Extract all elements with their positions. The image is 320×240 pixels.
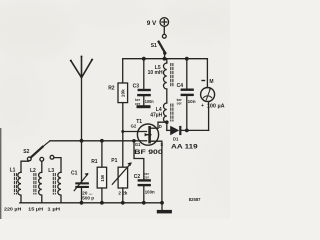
svg-text:S2: S2 (23, 149, 29, 155)
svg-text:C1: C1 (71, 170, 78, 176)
svg-text:100n: 100n (145, 99, 154, 104)
svg-text:AA 119: AA 119 (171, 144, 198, 151)
svg-text:2 2k: 2 2k (118, 190, 127, 195)
svg-text:D1: D1 (173, 137, 179, 142)
svg-text:82587: 82587 (189, 197, 201, 202)
svg-text:S1: S1 (151, 43, 157, 49)
svg-text:D: D (159, 124, 162, 129)
svg-text:BF 900: BF 900 (134, 149, 163, 156)
svg-text:L1: L1 (10, 167, 16, 173)
svg-text:10 mH: 10 mH (148, 70, 163, 76)
svg-text:L3: L3 (48, 168, 54, 174)
svg-text:R1: R1 (91, 159, 98, 165)
svg-text:100 µA: 100 µA (207, 103, 225, 109)
svg-text:220 µH: 220 µH (4, 206, 22, 211)
svg-text:G2: G2 (131, 124, 137, 129)
svg-text:cer: cer (135, 102, 141, 106)
svg-text:9 V: 9 V (147, 20, 157, 27)
svg-text:R2: R2 (108, 85, 115, 91)
svg-text:C3: C3 (133, 83, 140, 89)
svg-text:1M: 1M (100, 175, 106, 182)
svg-text:100n: 100n (145, 189, 155, 194)
svg-text:C2: C2 (134, 174, 141, 180)
svg-text:1 µH: 1 µH (47, 206, 60, 211)
svg-text:cer: cer (177, 101, 183, 105)
svg-text:M: M (209, 79, 213, 85)
svg-text:500 p: 500 p (82, 195, 94, 200)
svg-text:L2: L2 (30, 168, 36, 174)
svg-text:cer: cer (144, 175, 150, 179)
svg-text:T1: T1 (136, 119, 142, 125)
svg-text:P1: P1 (111, 158, 117, 164)
svg-text:+: + (201, 103, 204, 109)
svg-text:10n: 10n (188, 99, 196, 104)
svg-text:15 µH: 15 µH (28, 206, 44, 211)
svg-text:10k: 10k (121, 89, 127, 97)
svg-text:S: S (160, 142, 163, 147)
svg-text:G1: G1 (135, 142, 141, 147)
svg-text:47µH: 47µH (150, 113, 162, 119)
svg-text:C4: C4 (177, 83, 184, 89)
